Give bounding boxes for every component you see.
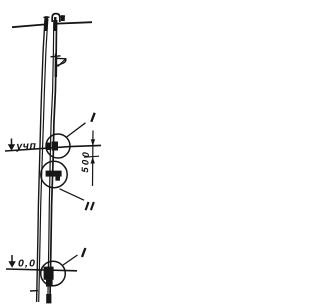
dimension lower arrow (up)	[91, 157, 95, 164]
bracket pole thickened wall	[55, 57, 58, 77]
coupling bar in circle II	[46, 171, 62, 177]
wire учп level line through circle I to dimension	[5, 145, 101, 151]
column left wall outer line	[37, 19, 45, 302]
level mark учп triangle	[8, 144, 15, 151]
column right wall inner line	[48, 20, 54, 302]
column left wall inner line	[39, 19, 48, 302]
wire top horizontal line right segment	[57, 22, 92, 23]
dimension upper arrow (down)	[91, 139, 95, 146]
svg-text:500: 500	[80, 151, 92, 173]
joint blob left part in circle I	[46, 143, 51, 151]
joint blob right part in circle I	[52, 142, 58, 151]
joint blob tail below center	[46, 280, 53, 287]
svg-text:0,0: 0,0	[18, 258, 35, 270]
detail circle I	[46, 134, 70, 158]
column right wall outer line	[50, 20, 57, 302]
column upper right wall thick stub	[54, 17, 57, 31]
column top left ear	[44, 16, 50, 18]
leader line circle I	[66, 123, 86, 138]
foot blob bottom right wall	[46, 294, 51, 303]
label I top	[91, 113, 94, 122]
detail circle bottom I	[41, 261, 66, 286]
bracket nub above tick	[55, 54, 57, 57]
detail circle II	[41, 161, 67, 187]
wire top horizontal line left segment	[12, 25, 44, 28]
wire 0,0 level line through bottom circle	[6, 269, 77, 271]
foot tick bottom left	[30, 290, 38, 292]
leader line bottom circle	[63, 255, 78, 265]
dimension extension tick lower	[84, 156, 99, 157]
dimension line vertical	[92, 131, 95, 187]
label II	[86, 202, 89, 210]
bracket flag loop	[56, 58, 66, 66]
column top lifting loop arch	[52, 14, 60, 22]
column upper left wall thick stub	[45, 17, 48, 31]
label I bottom	[82, 248, 85, 257]
column top right ear	[60, 15, 65, 17]
level mark 0,0 stem	[11, 255, 13, 263]
leader line circle II	[60, 189, 85, 200]
level mark учп stem	[11, 139, 13, 147]
coupling step in circle II	[55, 177, 60, 181]
bracket tick on right wall	[51, 56, 61, 57]
joint blob in bottom circle	[44, 267, 54, 280]
level mark 0,0 triangle	[8, 261, 15, 268]
